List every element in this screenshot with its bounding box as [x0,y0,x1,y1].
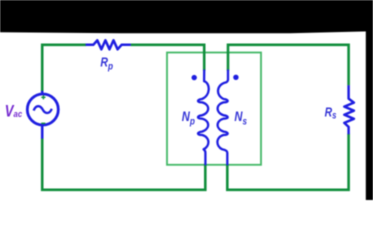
wire Rp to Np top lead [131,45,205,71]
top black bar [0,0,373,33]
resistor Rp [86,40,131,49]
right black strip [366,0,373,200]
plus mark [41,95,45,99]
svg-text:Vac: Vac [5,103,22,121]
resistor Rs [344,85,354,134]
voltage source Vac (circle + sine) [27,91,58,139]
svg-text:Rs: Rs [325,106,337,121]
svg-text:Rp: Rp [100,54,113,72]
polarity dot Np [192,75,197,80]
wire Ns top lead to Rs (top-right loop) [228,45,349,86]
wire Np bottom to Vac minus (bottom-left loop) [42,138,205,190]
inductor Np (primary coil) [198,71,209,165]
polarity dot Ns [233,75,238,80]
wire Vac plus to Rp (left vertical top + top-left horizontal) [42,45,86,91]
inductor Ns (secondary coil) [217,71,228,165]
svg-text:Np: Np [182,109,195,127]
wire Rs to Ns bottom lead (bottom-right loop) [227,134,348,190]
minus mark [41,122,45,124]
transformer box [167,53,261,165]
svg-text:Ns: Ns [234,109,247,127]
